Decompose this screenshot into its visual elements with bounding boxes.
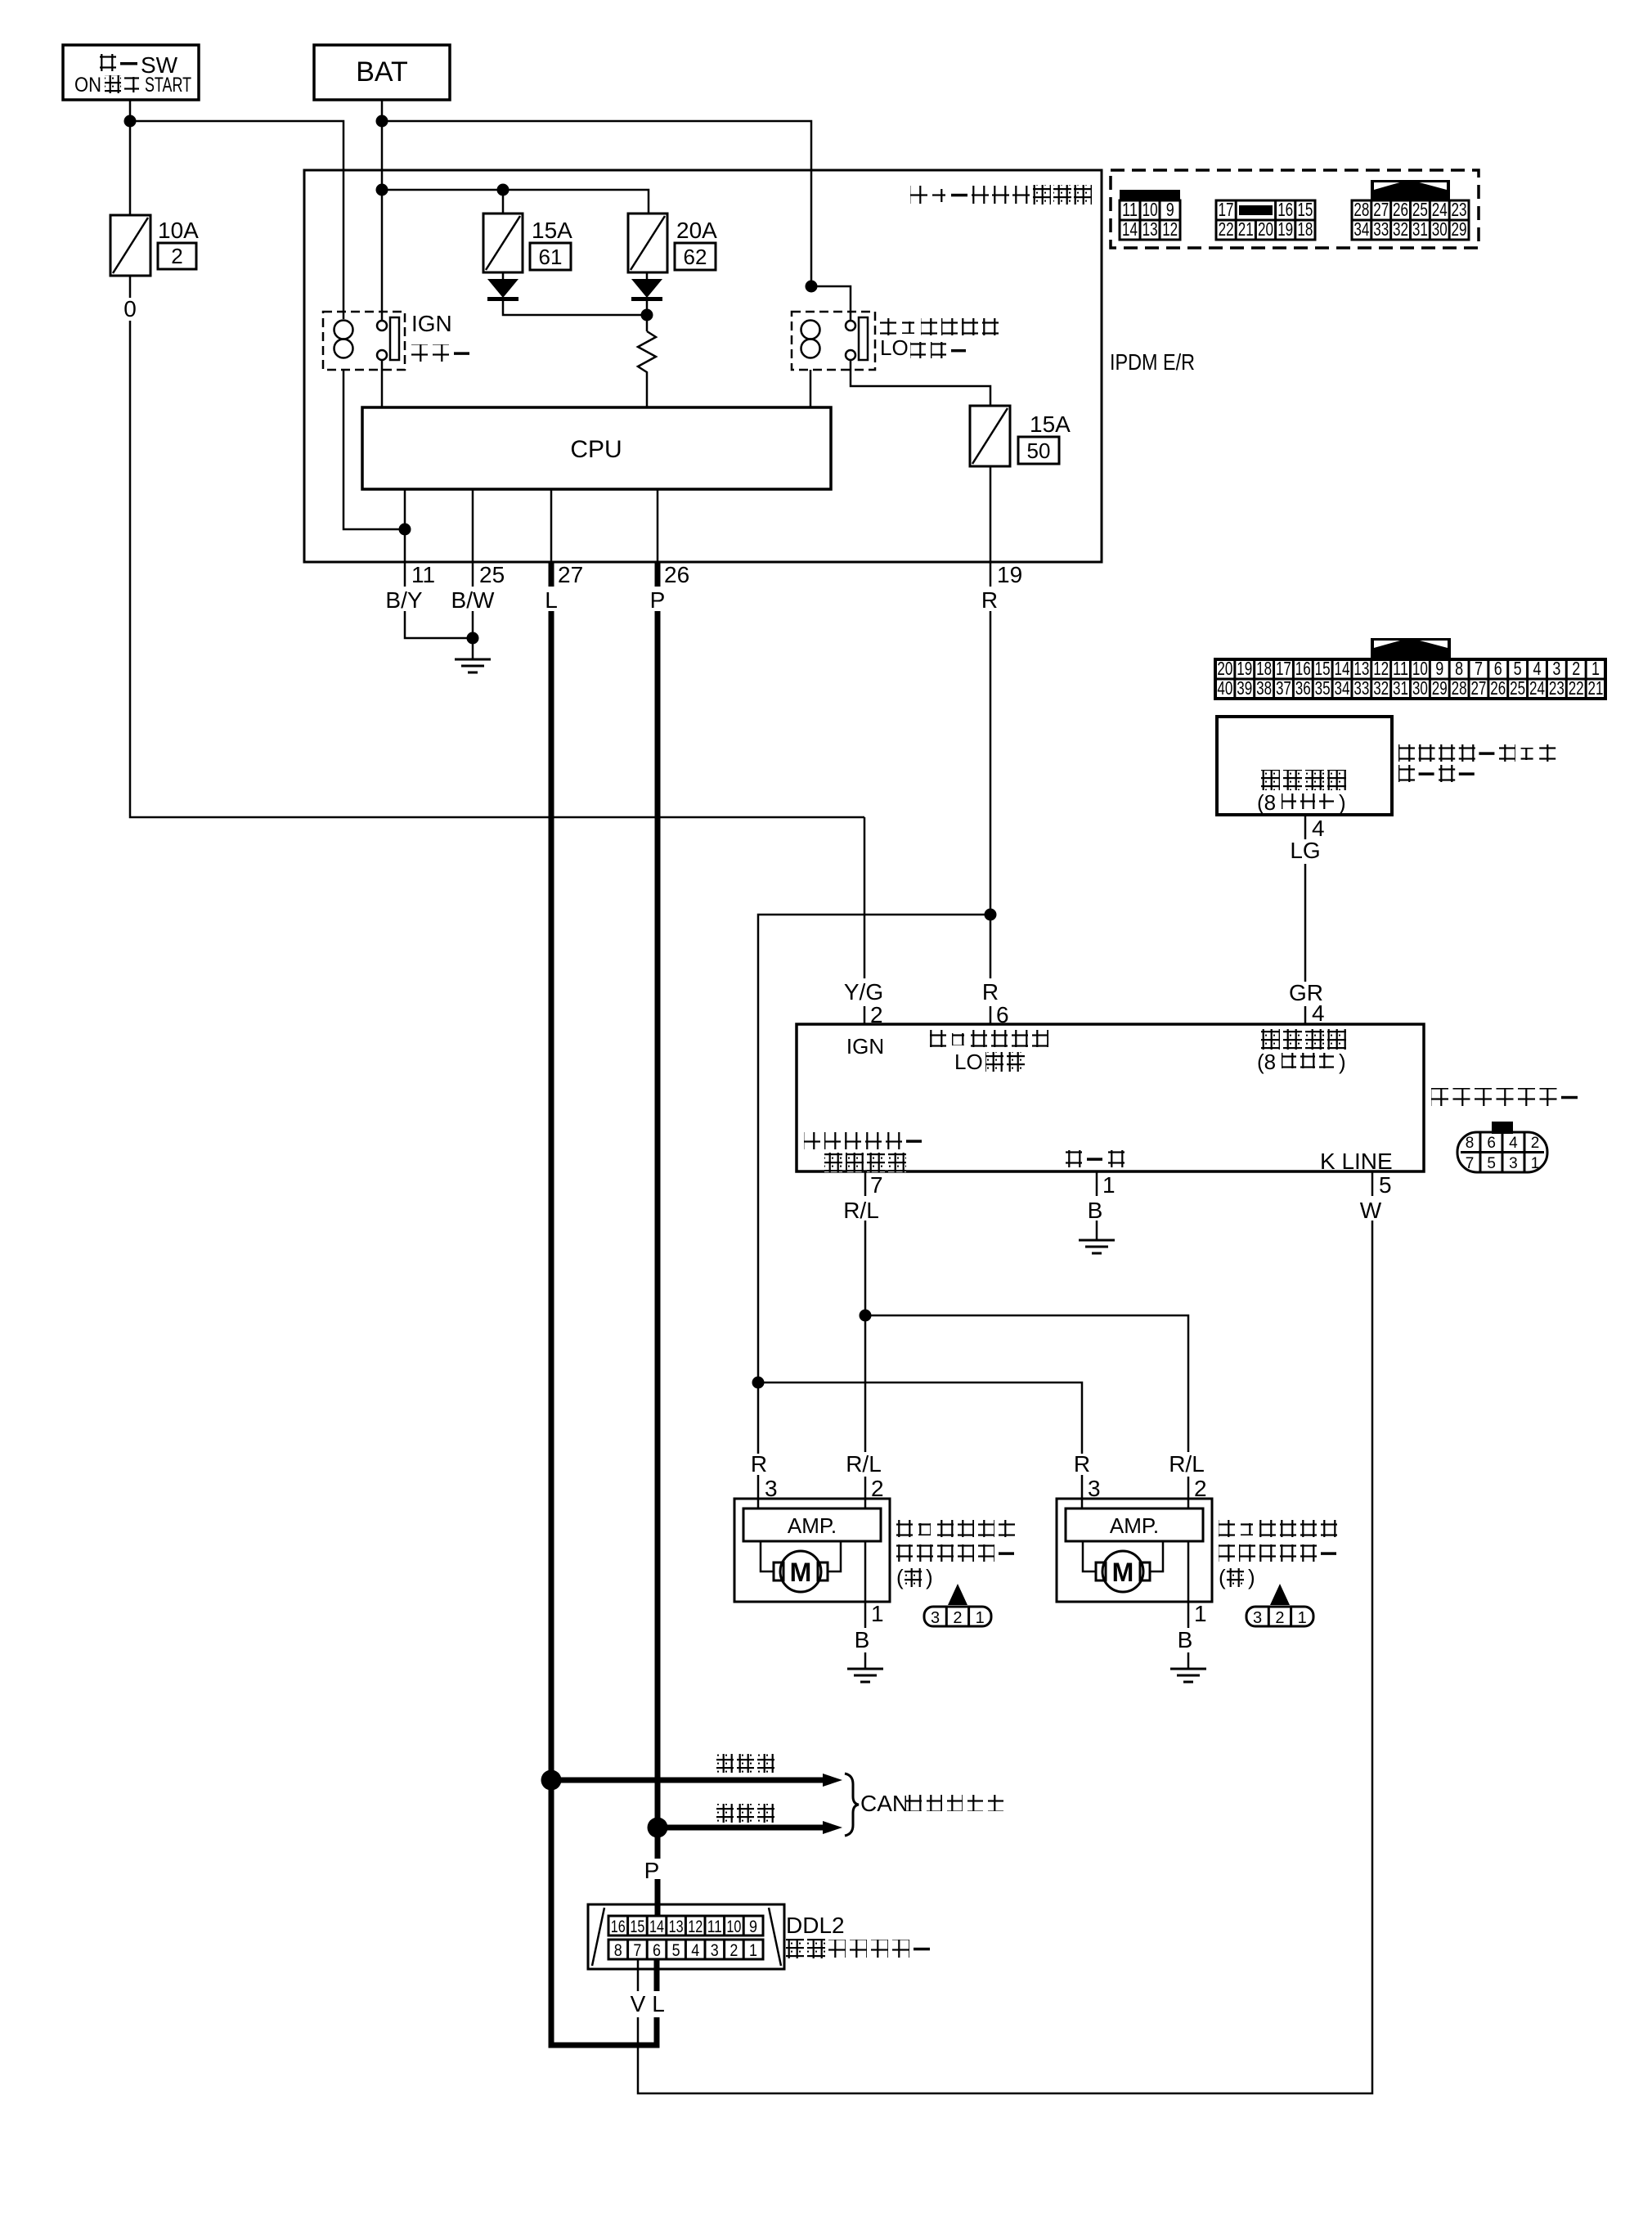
- ECU unit box (leveling control): [797, 1024, 1424, 1171]
- svg-text:18: 18: [1256, 658, 1272, 679]
- svg-text:12: 12: [1162, 218, 1178, 240]
- LO relay coil: [801, 321, 820, 358]
- svg-text:26: 26: [1393, 199, 1408, 220]
- svg-text:25: 25: [1412, 199, 1428, 220]
- svg-text:L: L: [652, 1991, 665, 2016]
- svg-text:5: 5: [672, 1941, 680, 1960]
- svg-text:7: 7: [870, 1172, 883, 1198]
- wire R/L junction to right leveler: [865, 1315, 1188, 1452]
- wire CPU pin 25: [472, 489, 474, 562]
- svg-text:40: 40: [1217, 677, 1232, 699]
- box 車速信号(8パルス) meter: [1217, 717, 1392, 815]
- svg-text:(8: (8: [1257, 1050, 1276, 1074]
- label fuse number 62 box: [675, 243, 716, 270]
- svg-text:17: 17: [1219, 199, 1234, 220]
- svg-text:3: 3: [1509, 1155, 1518, 1172]
- svg-text:21: 21: [1588, 677, 1604, 699]
- wire key switch down to junction: [129, 100, 132, 121]
- svg-text:DDL2: DDL2: [786, 1913, 845, 1938]
- label LO信号 inside unit: [954, 1050, 1025, 1074]
- svg-text:35: 35: [1315, 677, 1331, 699]
- svg-text:5: 5: [1514, 658, 1522, 679]
- svg-text:30: 30: [1412, 677, 1428, 699]
- svg-text:R: R: [982, 979, 999, 1005]
- svg-text:8: 8: [614, 1941, 622, 1960]
- svg-text:6: 6: [1487, 1135, 1496, 1152]
- svg-text:31: 31: [1412, 218, 1428, 240]
- label メーター: [1398, 765, 1475, 782]
- wire BAT down into IPDM to fuse feed node: [381, 121, 384, 190]
- svg-text:2: 2: [953, 1609, 962, 1627]
- svg-text:P: P: [650, 587, 666, 613]
- svg-text:Y/G: Y/G: [844, 979, 883, 1005]
- relay ヘッドランプLOリレー dashed box: [792, 312, 875, 370]
- node pin11/IGN coil junction: [399, 524, 411, 536]
- connector fuse block A (9-14): [1120, 190, 1180, 240]
- svg-text:14: 14: [1122, 218, 1138, 240]
- wire CPU pin 27: [550, 489, 553, 562]
- wire key switch junction right then down to IGN relay coil: [130, 121, 343, 319]
- svg-text:10: 10: [726, 1918, 741, 1936]
- label (右): [1219, 1565, 1255, 1589]
- wire B pin 1 left to ground: [864, 1541, 867, 1628]
- svg-text:1: 1: [749, 1941, 757, 1960]
- svg-text:23: 23: [1549, 677, 1564, 699]
- wire meter pin 4 LG: [1304, 815, 1307, 839]
- wire R junction left and down to levelers: [758, 915, 990, 1454]
- wire CAN arrow P: [658, 1821, 842, 1834]
- svg-text:34: 34: [1353, 218, 1369, 240]
- wire node to LO relay contact: [811, 286, 851, 321]
- svg-text:31: 31: [1393, 677, 1408, 699]
- svg-text:AMP.: AMP.: [1110, 1513, 1159, 1538]
- fuse 20A 62: [628, 214, 667, 272]
- svg-text:1: 1: [1102, 1172, 1116, 1198]
- svg-text:25: 25: [1510, 677, 1525, 699]
- svg-text:13: 13: [669, 1918, 684, 1936]
- wire node down to fuse 61: [502, 190, 505, 214]
- wire LO relay coil down to CPU: [810, 370, 812, 407]
- svg-text:): ): [1339, 790, 1346, 815]
- svg-text:B/Y: B/Y: [385, 587, 422, 613]
- svg-text:38: 38: [1256, 677, 1272, 699]
- svg-text:11: 11: [1393, 658, 1408, 679]
- label リレー: [411, 344, 469, 362]
- label ヒューズのみ交換可: [910, 185, 1092, 205]
- label アース inside unit: [1066, 1150, 1125, 1167]
- svg-text:2: 2: [1572, 658, 1580, 679]
- svg-text:16: 16: [1277, 199, 1293, 220]
- wire B pin 1 to ground: [1096, 1171, 1098, 1196]
- resistor to CPU: [638, 331, 656, 407]
- ground symbol B/W: [455, 659, 491, 672]
- ground symbol right leveler: [1170, 1669, 1206, 1682]
- wire W pin 5 K-line down: [1371, 1171, 1374, 1196]
- headlamp leveler (left) unit box: [734, 1499, 890, 1602]
- svg-text:1: 1: [1531, 1155, 1540, 1172]
- relay IGN リレー dashed box: [323, 312, 405, 370]
- svg-text:15A: 15A: [532, 218, 572, 243]
- svg-text:12: 12: [1373, 658, 1389, 679]
- fuse 15A 61: [483, 214, 523, 272]
- svg-text:11: 11: [707, 1918, 722, 1936]
- svg-text:13: 13: [1353, 658, 1369, 679]
- connector 3-2-1 left: [924, 1584, 991, 1627]
- brace CAN: [845, 1774, 859, 1836]
- label 診断コネクター: [786, 1939, 930, 1958]
- diode under fuse 62: [646, 272, 649, 279]
- svg-text:33: 33: [1373, 218, 1389, 240]
- label CANシステムへ: [860, 1791, 1003, 1816]
- label ヘッドランプ inside unit: [930, 1030, 1048, 1047]
- svg-text:37: 37: [1276, 677, 1291, 699]
- svg-text:B: B: [1088, 1198, 1103, 1223]
- svg-text:10: 10: [1412, 658, 1428, 679]
- svg-text:61: 61: [539, 245, 563, 269]
- svg-text:P: P: [644, 1858, 660, 1883]
- svg-text:R: R: [1074, 1451, 1090, 1477]
- svg-text:5: 5: [1379, 1172, 1392, 1198]
- svg-text:6: 6: [1494, 658, 1502, 679]
- label 通信線 (L): [716, 1754, 774, 1773]
- svg-text:13: 13: [1142, 218, 1158, 240]
- svg-text:2: 2: [1275, 1609, 1284, 1627]
- svg-text:8: 8: [1466, 1135, 1475, 1152]
- svg-text:8: 8: [1455, 658, 1463, 679]
- svg-text:R: R: [751, 1451, 767, 1477]
- label ヘッドランプ left: [896, 1520, 1015, 1537]
- svg-text:START: START: [145, 74, 191, 97]
- label (左): [896, 1565, 933, 1589]
- svg-text:ON: ON: [74, 74, 101, 97]
- svg-text:7: 7: [1475, 658, 1483, 679]
- fuse 10A: [110, 215, 150, 276]
- label 駆動信号 inside unit: [824, 1153, 906, 1172]
- svg-text:32: 32: [1393, 218, 1408, 240]
- svg-text:29: 29: [1452, 218, 1467, 240]
- wire B/W pin 25 to ground node: [472, 562, 474, 587]
- svg-text:16: 16: [1295, 658, 1311, 679]
- key switch box キーSW ON又はSTART: [63, 45, 199, 100]
- svg-text:23: 23: [1452, 199, 1467, 220]
- svg-text:14: 14: [1335, 658, 1350, 679]
- wire fuse 50 down to IPDM pin 19: [990, 466, 992, 562]
- svg-text:19: 19: [1277, 218, 1293, 240]
- svg-text:4: 4: [1509, 1135, 1518, 1152]
- svg-text:19: 19: [1237, 658, 1252, 679]
- wire BAT junction right then down to LO relay node: [382, 121, 811, 286]
- svg-text:4: 4: [1533, 658, 1542, 679]
- svg-text:20: 20: [1258, 218, 1273, 240]
- fuse block dashed enclosure: [1111, 170, 1479, 248]
- node R/L junction: [860, 1310, 872, 1322]
- svg-text:1: 1: [1591, 658, 1600, 679]
- svg-text:7: 7: [1466, 1155, 1475, 1172]
- svg-text:27: 27: [558, 562, 583, 587]
- IGN relay coil: [334, 321, 353, 358]
- svg-text:15: 15: [1315, 658, 1331, 679]
- svg-text:28: 28: [1353, 199, 1369, 220]
- svg-text:IGN: IGN: [411, 311, 452, 336]
- battery box BAT: [314, 45, 450, 100]
- node CAN P junction: [648, 1818, 668, 1838]
- svg-text:22: 22: [1569, 677, 1584, 699]
- label (8パルス) inside unit: [1257, 1050, 1346, 1074]
- label ヘッドランプ (relay): [880, 318, 999, 335]
- svg-text:4: 4: [1312, 1000, 1325, 1026]
- svg-text:26: 26: [664, 562, 689, 587]
- svg-text:M: M: [790, 1558, 812, 1587]
- node BAT junction: [376, 115, 388, 128]
- node leveler R junction: [752, 1377, 765, 1389]
- svg-text:BAT: BAT: [356, 56, 408, 88]
- label レベライザー inside unit: [804, 1132, 922, 1149]
- svg-text:(: (: [1219, 1565, 1226, 1589]
- wire R junction to right leveler pin 3: [758, 1383, 1082, 1454]
- svg-text:15: 15: [1297, 199, 1313, 220]
- svg-text:B: B: [855, 1627, 870, 1652]
- label (8パルス) meter: [1257, 790, 1346, 815]
- label レベライザー left: [896, 1544, 1014, 1562]
- svg-text:11: 11: [411, 562, 435, 587]
- node CAN L junction: [541, 1770, 562, 1791]
- svg-text:B: B: [1178, 1627, 1193, 1652]
- svg-text:M: M: [1112, 1558, 1134, 1587]
- ground symbol left leveler: [847, 1669, 883, 1682]
- svg-text:1: 1: [1194, 1601, 1207, 1626]
- svg-text:7: 7: [633, 1941, 641, 1960]
- svg-text:(: (: [896, 1565, 904, 1589]
- svg-text:K LINE: K LINE: [1320, 1149, 1393, 1174]
- svg-text:27: 27: [1470, 677, 1486, 699]
- svg-text:9: 9: [1166, 199, 1174, 220]
- svg-text:9: 9: [749, 1918, 757, 1936]
- svg-text:28: 28: [1452, 677, 1467, 699]
- label 通信線 (P): [716, 1804, 774, 1823]
- svg-text:R/L: R/L: [846, 1451, 882, 1477]
- svg-text:16: 16: [611, 1918, 626, 1936]
- node ground junction: [467, 632, 479, 645]
- connector fuse block C (23-34): [1352, 180, 1469, 240]
- label fuse number 50 box: [1018, 437, 1059, 464]
- LO relay contact: [846, 317, 868, 360]
- wire fuse 10A down, label 0, to Y/G feed: [129, 276, 132, 298]
- svg-text:22: 22: [1219, 218, 1234, 240]
- svg-text:1: 1: [976, 1609, 985, 1627]
- svg-text:30: 30: [1432, 218, 1448, 240]
- wire BAT down to IGN relay contact: [381, 190, 384, 321]
- svg-text:L: L: [545, 587, 558, 613]
- svg-text:36: 36: [1295, 677, 1311, 699]
- svg-text:11: 11: [1122, 199, 1138, 220]
- connector 3-2-1 right: [1246, 1584, 1313, 1627]
- connector height sensor 8pin: [1457, 1122, 1547, 1172]
- svg-text:R: R: [981, 587, 998, 613]
- label レベライザー right: [1219, 1544, 1336, 1562]
- svg-text:IPDM E/R: IPDM E/R: [1110, 349, 1195, 375]
- svg-text:2: 2: [1194, 1476, 1207, 1501]
- svg-text:4: 4: [691, 1941, 699, 1960]
- svg-text:21: 21: [1238, 218, 1254, 240]
- connector fuse block B (15-22): [1216, 199, 1315, 240]
- svg-text:(8: (8: [1257, 790, 1276, 815]
- ground symbol unit pin1: [1079, 1240, 1115, 1253]
- svg-text:V: V: [631, 1991, 646, 2016]
- label 車速信号 meter: [1261, 770, 1346, 790]
- svg-text:3: 3: [711, 1941, 719, 1960]
- svg-text:3: 3: [1552, 658, 1560, 679]
- svg-text:29: 29: [1432, 677, 1448, 699]
- svg-text:3: 3: [1088, 1476, 1101, 1501]
- connector combination meter 40pin: [1215, 638, 1605, 699]
- wire R/L pin 7 down: [864, 1171, 867, 1196]
- svg-text:26: 26: [1490, 677, 1506, 699]
- svg-text:LG: LG: [1290, 838, 1320, 863]
- wire B/Y pin 11 to ground node: [404, 562, 406, 587]
- label ヘッドランプ right: [1219, 1520, 1337, 1537]
- svg-text:14: 14: [649, 1918, 664, 1936]
- svg-text:3: 3: [931, 1609, 940, 1627]
- svg-text:LO: LO: [954, 1050, 983, 1074]
- wire P thick CAN line: [655, 562, 661, 587]
- node BAT fuse feed: [376, 184, 388, 196]
- connector DDL2 diagnostic: [588, 1904, 784, 1969]
- svg-text:19: 19: [997, 562, 1022, 587]
- diode under fuse 61: [502, 272, 505, 279]
- CPU box: [362, 407, 831, 489]
- svg-text:25: 25: [479, 562, 505, 587]
- svg-text:15A: 15A: [1030, 411, 1071, 437]
- svg-text:18: 18: [1297, 218, 1313, 240]
- node R junction: [985, 909, 997, 921]
- svg-text:AMP.: AMP.: [788, 1513, 837, 1538]
- wire L thick CAN line: [549, 562, 554, 587]
- svg-text:3: 3: [765, 1476, 778, 1501]
- svg-text:9: 9: [1435, 658, 1443, 679]
- svg-text:R/L: R/L: [1169, 1451, 1205, 1477]
- svg-text:2: 2: [171, 244, 182, 268]
- svg-text:10A: 10A: [158, 218, 199, 243]
- headlamp leveler (right) unit box: [1057, 1499, 1212, 1602]
- fuse 15A 50: [970, 406, 1010, 466]
- svg-text:0: 0: [123, 296, 137, 321]
- svg-text:W: W: [1360, 1198, 1382, 1223]
- svg-text:): ): [1248, 1565, 1255, 1589]
- svg-text:CAN: CAN: [860, 1791, 909, 1816]
- svg-text:24: 24: [1432, 199, 1448, 220]
- svg-text:20A: 20A: [676, 218, 717, 243]
- svg-text:6: 6: [996, 1002, 1009, 1027]
- wire diode 61 to common node: [503, 299, 647, 315]
- svg-text:1: 1: [871, 1601, 884, 1626]
- label fuse number 61 box: [530, 243, 571, 270]
- svg-text:2: 2: [1531, 1135, 1540, 1152]
- wire BAT down to junction: [381, 100, 384, 121]
- svg-text:CPU: CPU: [570, 436, 622, 463]
- wire CAN arrow L: [551, 1774, 842, 1787]
- node key switch junction: [124, 115, 137, 128]
- label 車速信号 inside unit: [1261, 1029, 1346, 1050]
- svg-text:6: 6: [653, 1941, 661, 1960]
- node diode common: [646, 299, 649, 331]
- label ハイトセンサー: [1431, 1088, 1578, 1106]
- svg-text:15: 15: [630, 1918, 644, 1936]
- svg-text:2: 2: [729, 1941, 738, 1960]
- wire fuse feed to fuse 62: [382, 190, 649, 214]
- wire LO relay contact to fuse 50: [851, 360, 990, 406]
- svg-text:5: 5: [1487, 1155, 1496, 1172]
- wire B pin 1 right to ground: [1187, 1541, 1190, 1628]
- svg-text:33: 33: [1353, 677, 1369, 699]
- IGN relay contact: [377, 317, 399, 360]
- svg-text:17: 17: [1276, 658, 1291, 679]
- svg-text:1: 1: [1298, 1609, 1307, 1627]
- svg-text:2: 2: [871, 1476, 884, 1501]
- wire Y/G down into unit pin 2: [864, 817, 866, 978]
- svg-text:B/W: B/W: [451, 587, 495, 613]
- label fuse number 2 box: [158, 243, 196, 269]
- svg-text:27: 27: [1373, 199, 1389, 220]
- svg-text:2: 2: [870, 1002, 883, 1027]
- wire CPU pin 11: [404, 489, 406, 562]
- svg-text:20: 20: [1217, 658, 1232, 679]
- svg-text:24: 24: [1529, 677, 1545, 699]
- svg-text:): ): [926, 1565, 933, 1589]
- svg-text:50: 50: [1027, 438, 1051, 463]
- label コンビネーション: [1398, 744, 1555, 762]
- wire R pin 19 down to LO signal junction: [990, 562, 992, 587]
- svg-text:10: 10: [1142, 199, 1158, 220]
- IPDM E/R enclosure box: [304, 170, 1102, 562]
- wire IGN coil down to pin11 node: [343, 370, 405, 529]
- node fuse 61 feed: [497, 184, 510, 196]
- svg-text:R/L: R/L: [843, 1198, 879, 1223]
- wire CPU pin 26: [657, 489, 659, 562]
- svg-text:12: 12: [688, 1918, 703, 1936]
- svg-text:39: 39: [1237, 677, 1252, 699]
- label LOリレー: [880, 335, 909, 360]
- svg-text:3: 3: [1253, 1609, 1262, 1627]
- wire IGN contact down to CPU: [381, 361, 384, 407]
- node headlamp LO relay feed: [806, 281, 818, 293]
- svg-text:): ): [1339, 1050, 1346, 1074]
- svg-text:32: 32: [1373, 677, 1389, 699]
- wire key switch junction down to fuse 10A: [129, 121, 132, 215]
- svg-text:LO: LO: [880, 335, 909, 360]
- svg-text:IGN: IGN: [846, 1034, 884, 1059]
- svg-text:62: 62: [684, 245, 707, 269]
- svg-text:34: 34: [1335, 677, 1350, 699]
